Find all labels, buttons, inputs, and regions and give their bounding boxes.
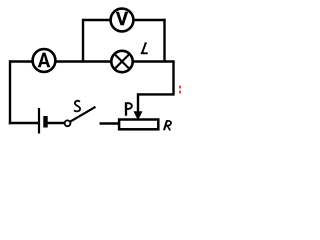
label L: [141, 43, 148, 53]
wire left vertical: [9, 60, 11, 124]
switch pivot circle: [65, 120, 71, 126]
ammeter U2: [33, 49, 56, 72]
wire right vertical: [172, 62, 174, 95]
wire top from V-branch left corner to voltmeter: [83, 19, 110, 21]
wire bottom left to battery: [9, 122, 38, 124]
red mark upper at right edge: [179, 86, 181, 89]
switch lever: [70, 107, 95, 122]
slider arrow wire P: [137, 93, 139, 112]
lamp L: [111, 51, 132, 72]
wire horizontal into slider: [138, 93, 175, 95]
rheostat R box: [119, 120, 158, 130]
label S: [74, 101, 80, 112]
wire middle left segment: [10, 60, 33, 62]
red mark lower at right edge: [179, 91, 181, 94]
label R: [164, 120, 171, 130]
label P: [126, 102, 132, 115]
slider arrowhead: [134, 111, 143, 120]
wire battery to switch: [48, 122, 65, 124]
wire V-branch left vertical: [82, 19, 84, 62]
wire V-branch right vertical: [163, 19, 165, 62]
battery short plate: [43, 116, 47, 128]
wire middle right segment: [133, 60, 175, 62]
wire top from voltmeter to right corner: [134, 19, 166, 21]
battery long plate: [38, 108, 40, 134]
wire switch to rheostat: [100, 122, 120, 124]
voltmeter U1: [111, 9, 134, 32]
wire middle center segment: [56, 60, 111, 62]
